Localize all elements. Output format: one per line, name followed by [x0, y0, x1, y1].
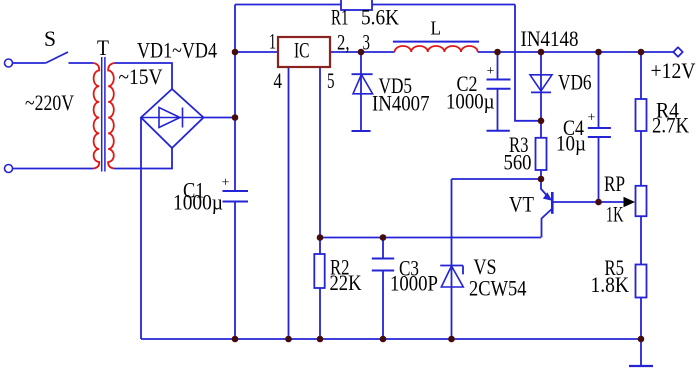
- wire: bottom rail y=339: [141, 338, 641, 340]
- VS labels: [469, 254, 527, 301]
- C1 value label: [173, 178, 223, 215]
- node: C2 top: [494, 49, 501, 56]
- wire: R1 right side vertical x=514 down to node wire y=120.8: [515, 5, 541, 121]
- T label: [97, 35, 109, 60]
- wire: bridge + output to bus: [204, 117, 236, 119]
- R1 value label: [331, 5, 399, 30]
- node: pin4 / bottom rail: [285, 336, 292, 343]
- pin 1 label: [269, 29, 276, 54]
- svg-text:2,: 2,: [337, 30, 350, 55]
- svg-text:+: +: [487, 64, 495, 79]
- wire: bridge minus vertical x=141 from left vertex to bottom rail: [140, 118, 142, 340]
- node: R5 bottom rail: [638, 336, 645, 343]
- node: C3 top: [380, 234, 387, 241]
- R4 labels: [652, 98, 689, 138]
- svg-text:1K: 1K: [606, 202, 624, 227]
- svg-text:1000P: 1000P: [390, 271, 438, 296]
- VD5 labels: [372, 73, 430, 116]
- RP labels: [604, 171, 625, 227]
- transformer T secondary winding: [108, 63, 114, 169]
- potentiometer RP body: [636, 186, 647, 216]
- C1 plus sign: [222, 176, 230, 191]
- terminal: +12V output: [673, 47, 682, 56]
- wire: from top terminal to switch: [12, 62, 46, 64]
- C4 value label: [556, 115, 586, 156]
- wire: secondary top from coil to bridge top vertex: [115, 63, 173, 89]
- C4 plus sign: [588, 111, 596, 126]
- svg-text:~15V: ~15V: [119, 64, 163, 89]
- ~15V label: [119, 64, 163, 89]
- svg-text:+12V: +12V: [651, 58, 696, 83]
- svg-text:VD1~VD4: VD1~VD4: [137, 38, 217, 63]
- bridge rectifier inner diode: [141, 108, 204, 128]
- bridge rectifier VD1~VD4 diamond: [141, 89, 204, 148]
- wire: main rail y=52 from inductor end to +12V terminal: [478, 51, 674, 53]
- wire: R5 bottom to bottom rail: [640, 298, 642, 340]
- svg-text:1000µ: 1000µ: [173, 190, 223, 215]
- capacitor C1: [223, 191, 249, 202]
- transformer T primary winding: [93, 63, 99, 169]
- inductor L core bar: [393, 41, 479, 43]
- svg-text:RP: RP: [604, 171, 625, 196]
- R5 labels: [591, 255, 630, 297]
- node: bus / bottom rail: [232, 336, 239, 343]
- wire: feedback wire y=237.5 from R2 node to VT collector corner: [320, 237, 541, 239]
- svg-text:10µ: 10µ: [556, 131, 586, 156]
- C2 plus sign: [487, 64, 495, 79]
- svg-text:VD6: VD6: [558, 70, 592, 95]
- svg-text:1.8K: 1.8K: [591, 272, 630, 297]
- S label: [44, 26, 56, 51]
- svg-text:IC: IC: [294, 38, 310, 63]
- ground (VD5 anode): [352, 130, 371, 132]
- svg-text:1000µ: 1000µ: [446, 89, 495, 114]
- wire: bottom terminal to primary coil bottom: [12, 168, 93, 170]
- wire: VD6/R3 column x=541 from rail to R3 bottom node: [540, 52, 542, 179]
- wire: RP bottom to R5 top: [640, 216, 642, 264]
- node: C4 bottom / VT base wire: [595, 199, 602, 206]
- C2 value label: [446, 71, 495, 114]
- wire: IC pin 4 down to bottom rail: [288, 67, 290, 339]
- wire: secondary bottom from coil to bridge bottom vertex jog: [114, 148, 172, 169]
- diode VD6: [530, 75, 552, 93]
- svg-text:5.6K: 5.6K: [361, 5, 399, 30]
- svg-text:VT: VT: [509, 192, 534, 217]
- node: VD6 top: [538, 49, 545, 56]
- +12V label: [651, 58, 696, 83]
- node: bridge + / bus junction: [232, 114, 239, 121]
- node: pin5 / R2 top: [317, 234, 324, 241]
- C3 labels: [390, 256, 438, 296]
- svg-text:R1: R1: [331, 5, 349, 30]
- svg-text:S: S: [44, 26, 56, 51]
- resistor R5: [636, 265, 647, 298]
- ground (main, bottom right): [629, 339, 653, 366]
- wire: VS column x=451.5 from y=179 to bottom rail: [451, 179, 453, 339]
- svg-text:+: +: [588, 111, 596, 126]
- node: R2 bottom rail: [317, 336, 324, 343]
- wire: C3 column top lead: [382, 238, 384, 259]
- terminal: AC input bottom: [5, 165, 13, 173]
- VD1~VD4 label: [137, 38, 217, 63]
- svg-text:1: 1: [269, 29, 276, 54]
- pin 3 label: [363, 30, 371, 55]
- node: C4 top: [595, 49, 602, 56]
- node: R3 bottom / VT emitter / VS wire: [538, 176, 545, 183]
- ~220V label: [25, 90, 74, 115]
- node: VD5 top: [358, 49, 365, 56]
- capacitor C4: [588, 52, 611, 202]
- R3 labels: [504, 132, 532, 175]
- switch S blade: [46, 52, 68, 63]
- capacitor C2: [487, 52, 511, 131]
- wire: IC pin 5 down to R2 top node: [319, 67, 321, 254]
- svg-text:22K: 22K: [330, 270, 362, 295]
- zener diode VS: [440, 266, 463, 288]
- svg-text:T: T: [97, 35, 109, 60]
- RP wiper arrow: [624, 197, 636, 207]
- resistor R4: [636, 52, 647, 186]
- node: R4 top: [638, 49, 645, 56]
- wire: left vertical bus x=235 from top rail down to C1 top plate: [234, 5, 236, 192]
- IC label: [294, 38, 310, 63]
- transformer T core: [102, 57, 105, 172]
- IN4148 label: [521, 26, 579, 51]
- svg-text:4: 4: [274, 68, 283, 93]
- ground (C2 negative): [487, 130, 510, 132]
- diode VD5: [352, 52, 373, 131]
- wire: top rail y=4.5 from left bus to right corner: [235, 4, 515, 6]
- node: bus / pin1 junction: [232, 49, 239, 56]
- wire: main rail y=52 from bus to IC left pin 1: [235, 51, 278, 53]
- pin 5 label: [327, 68, 335, 93]
- terminal: AC input top: [5, 59, 13, 67]
- wire: left bus below C1 to bottom rail: [234, 202, 236, 340]
- wire: main rail y=52 from IC right (pins 2,3) to inductor start: [330, 51, 395, 53]
- wire: R2 bottom to bottom rail: [319, 288, 321, 339]
- pin 2 label: [337, 30, 350, 55]
- svg-text:2.7K: 2.7K: [652, 113, 689, 138]
- L label: [431, 18, 442, 40]
- transistor VT: [541, 179, 625, 238]
- svg-text:+: +: [222, 176, 230, 191]
- node: C3 bottom rail: [380, 336, 387, 343]
- inductor L winding: [395, 46, 478, 52]
- svg-text:L: L: [431, 18, 442, 40]
- svg-text:IN4007: IN4007: [372, 91, 430, 116]
- node: VS bottom rail: [448, 336, 455, 343]
- wire: from switch to primary coil: [69, 62, 94, 64]
- VD6 label: [558, 70, 592, 95]
- svg-text:5: 5: [327, 68, 335, 93]
- svg-text:2CW54: 2CW54: [469, 276, 527, 301]
- wire: VS top wire y=179 to R3 bottom node: [452, 178, 542, 180]
- svg-text:~220V: ~220V: [25, 90, 74, 115]
- svg-text:IN4148: IN4148: [521, 26, 579, 51]
- resistor R2: [314, 254, 324, 288]
- VT label: [509, 192, 534, 217]
- R2 labels: [330, 255, 362, 296]
- node: VD6 bottom / R1 wire / R3 top: [538, 118, 545, 125]
- op-amp IC U1 box: [278, 37, 330, 67]
- svg-text:560: 560: [504, 150, 532, 175]
- resistor R1 (top, clipped): [341, 0, 372, 10]
- wire: C3 bottom lead to bottom rail: [382, 271, 384, 340]
- capacitor C3: [372, 259, 394, 271]
- resistor R3: [536, 138, 547, 170]
- pin 4 label: [274, 68, 283, 93]
